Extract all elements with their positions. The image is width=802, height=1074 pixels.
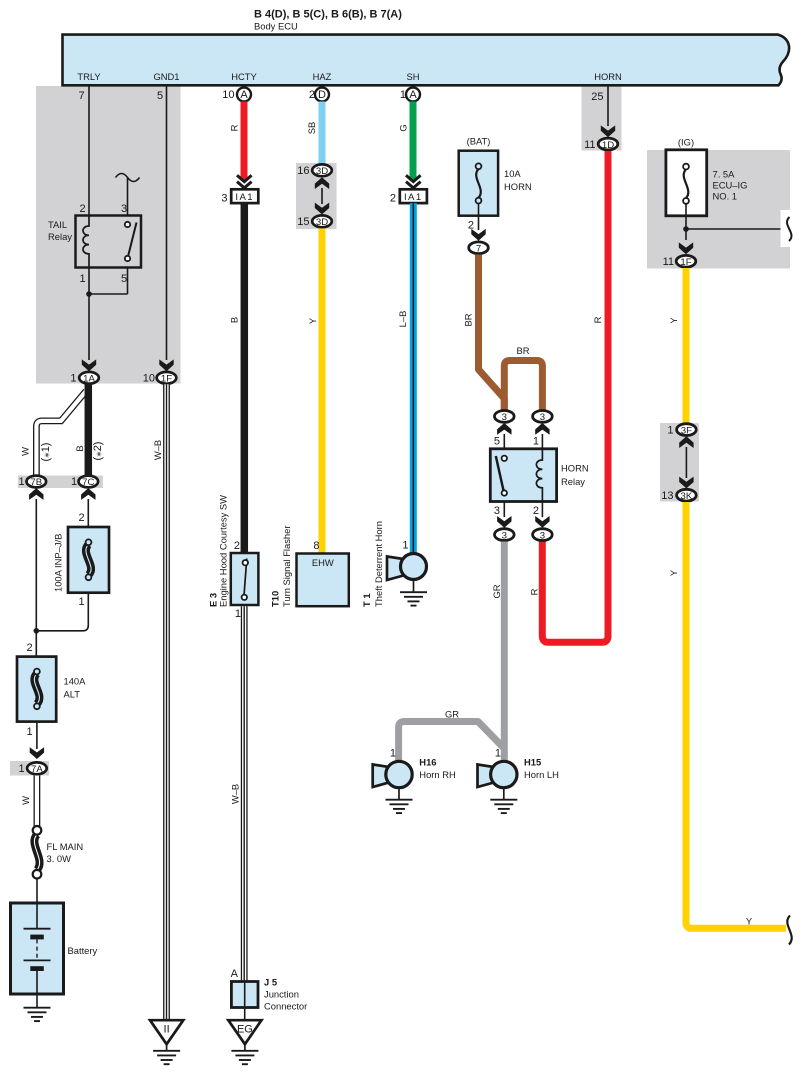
- svg-text:(⁎1): (⁎1): [40, 443, 52, 462]
- svg-text:1: 1: [235, 608, 241, 620]
- svg-text:T10: T10: [270, 591, 281, 607]
- svg-text:SB: SB: [306, 122, 317, 135]
- svg-text:Battery: Battery: [68, 945, 98, 956]
- svg-text:II: II: [164, 1024, 170, 1036]
- svg-text:L–B: L–B: [397, 311, 408, 328]
- svg-text:3: 3: [121, 203, 127, 215]
- svg-text:GR: GR: [491, 584, 502, 598]
- svg-text:R: R: [592, 316, 603, 323]
- svg-text:5: 5: [494, 436, 500, 448]
- svg-text:10A: 10A: [504, 168, 521, 179]
- svg-text:ALT: ALT: [64, 689, 81, 700]
- svg-text:2: 2: [390, 192, 396, 204]
- svg-text:1: 1: [667, 424, 673, 436]
- svg-text:1F: 1F: [680, 257, 691, 268]
- svg-text:Relay: Relay: [561, 476, 585, 487]
- svg-text:W–B: W–B: [152, 440, 163, 460]
- svg-text:W–B: W–B: [230, 784, 241, 804]
- svg-text:7: 7: [476, 244, 481, 255]
- svg-text:7B: 7B: [30, 477, 42, 488]
- svg-text:Relay: Relay: [48, 231, 72, 242]
- svg-text:5: 5: [157, 90, 163, 102]
- svg-text:1: 1: [70, 373, 76, 385]
- svg-text:2: 2: [234, 540, 240, 552]
- svg-text:D: D: [318, 89, 326, 101]
- svg-text:HAZ: HAZ: [313, 71, 332, 82]
- svg-text:GND1: GND1: [153, 71, 179, 82]
- svg-text:Y: Y: [668, 569, 679, 576]
- svg-text:(BAT): (BAT): [467, 136, 491, 147]
- svg-text:1: 1: [533, 436, 539, 448]
- svg-text:16: 16: [297, 165, 309, 177]
- svg-text:10: 10: [143, 373, 155, 385]
- svg-text:11: 11: [584, 139, 595, 151]
- svg-text:1F: 1F: [161, 374, 172, 385]
- svg-text:A: A: [231, 968, 239, 980]
- svg-text:Theft Deterrent Horn: Theft Deterrent Horn: [373, 521, 384, 607]
- svg-text:H16: H16: [419, 757, 436, 768]
- svg-text:15: 15: [297, 216, 309, 228]
- svg-text:B 4(D), B 5(C), B 6(B), B 7(A): B 4(D), B 5(C), B 6(B), B 7(A): [254, 9, 402, 21]
- svg-text:(IG): (IG): [678, 137, 694, 148]
- svg-text:3K: 3K: [681, 491, 693, 502]
- svg-text:10: 10: [222, 89, 234, 101]
- svg-text:G: G: [398, 124, 409, 131]
- svg-text:1: 1: [402, 540, 408, 552]
- svg-text:7A: 7A: [31, 764, 43, 775]
- svg-text:3: 3: [540, 412, 545, 423]
- svg-text:ECU–IG: ECU–IG: [713, 180, 748, 191]
- svg-text:A: A: [409, 89, 417, 101]
- svg-text:HORN: HORN: [594, 71, 622, 82]
- svg-text:HORN: HORN: [504, 181, 532, 192]
- svg-text:25: 25: [591, 91, 603, 103]
- svg-text:NO. 1: NO. 1: [713, 191, 738, 202]
- svg-text:1: 1: [71, 476, 77, 488]
- svg-text:2: 2: [79, 512, 85, 524]
- svg-text:Engine Hood Courtesy SW: Engine Hood Courtesy SW: [218, 495, 229, 607]
- svg-text:Y: Y: [307, 317, 318, 324]
- svg-text:3D: 3D: [316, 166, 328, 177]
- svg-text:W: W: [20, 447, 31, 456]
- svg-text:3: 3: [494, 505, 500, 517]
- svg-text:Y: Y: [668, 317, 679, 324]
- svg-text:1A: 1A: [83, 374, 95, 385]
- svg-text:1D: 1D: [602, 140, 614, 151]
- svg-text:EHW: EHW: [312, 557, 334, 568]
- svg-text:BR: BR: [463, 313, 474, 326]
- svg-text:3: 3: [502, 530, 507, 541]
- svg-text:100A INP–J/B: 100A INP–J/B: [53, 534, 64, 592]
- svg-text:3: 3: [540, 530, 545, 541]
- svg-text:A: A: [240, 89, 248, 101]
- svg-text:B: B: [74, 445, 85, 451]
- svg-text:GR: GR: [445, 709, 459, 720]
- svg-text:Turn Signal Flasher: Turn Signal Flasher: [281, 526, 292, 607]
- svg-text:T 1: T 1: [361, 593, 372, 607]
- svg-text:7. 5A: 7. 5A: [713, 169, 736, 180]
- svg-text:1: 1: [79, 596, 85, 608]
- svg-text:SH: SH: [406, 71, 419, 82]
- svg-text:IA1: IA1: [404, 192, 423, 203]
- svg-text:2: 2: [468, 220, 474, 232]
- svg-text:(⁎2): (⁎2): [92, 442, 104, 461]
- svg-text:Horn LH: Horn LH: [524, 769, 559, 780]
- svg-text:FL MAIN: FL MAIN: [47, 841, 84, 852]
- svg-text:2: 2: [533, 505, 539, 517]
- svg-text:13: 13: [661, 490, 673, 502]
- svg-text:2: 2: [79, 203, 85, 215]
- svg-text:1: 1: [18, 763, 24, 775]
- svg-text:7: 7: [78, 90, 84, 102]
- svg-text:J 5: J 5: [264, 977, 277, 988]
- svg-text:1: 1: [79, 273, 85, 285]
- svg-text:EG: EG: [237, 1024, 253, 1036]
- svg-text:Junction: Junction: [264, 989, 299, 1000]
- svg-text:R: R: [229, 124, 240, 131]
- svg-text:Horn RH: Horn RH: [419, 769, 455, 780]
- svg-text:TRLY: TRLY: [77, 71, 101, 82]
- svg-text:TAIL: TAIL: [48, 219, 67, 230]
- svg-text:HCTY: HCTY: [231, 71, 257, 82]
- svg-text:IA1: IA1: [235, 192, 254, 203]
- svg-text:HORN: HORN: [561, 463, 589, 474]
- svg-text:3: 3: [221, 192, 227, 204]
- svg-text:1: 1: [18, 476, 24, 488]
- svg-text:2: 2: [26, 642, 32, 654]
- svg-text:3. 0W: 3. 0W: [47, 853, 72, 864]
- svg-text:Y: Y: [746, 916, 753, 927]
- svg-text:B: B: [229, 317, 240, 323]
- svg-text:H15: H15: [524, 757, 541, 768]
- svg-text:W: W: [20, 796, 31, 805]
- svg-text:1: 1: [390, 748, 396, 760]
- svg-text:3D: 3D: [316, 217, 328, 228]
- svg-text:BR: BR: [516, 345, 529, 356]
- svg-text:8: 8: [313, 540, 319, 552]
- svg-text:3F: 3F: [681, 425, 692, 436]
- svg-text:11: 11: [663, 256, 674, 268]
- svg-text:1: 1: [26, 726, 32, 738]
- svg-text:Body ECU: Body ECU: [254, 21, 298, 32]
- svg-text:Connector: Connector: [264, 1001, 307, 1012]
- svg-text:R: R: [529, 588, 540, 595]
- svg-text:7C: 7C: [82, 477, 94, 488]
- svg-text:3: 3: [502, 412, 507, 423]
- svg-text:140A: 140A: [64, 676, 87, 687]
- svg-text:5: 5: [121, 273, 127, 285]
- svg-text:1: 1: [495, 748, 501, 760]
